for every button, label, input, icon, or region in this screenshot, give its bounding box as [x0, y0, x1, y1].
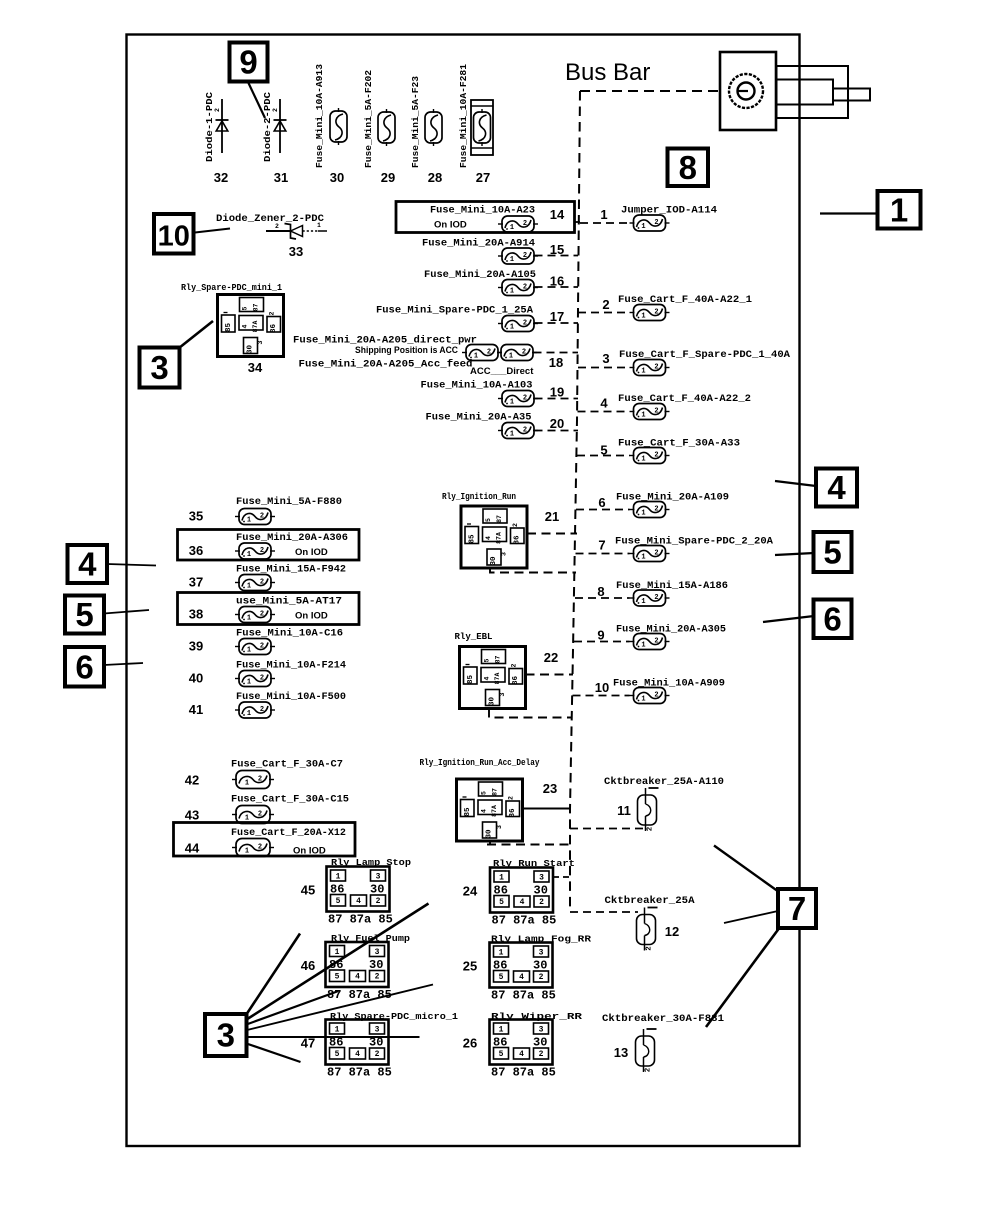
leader line callout 4 (left): [107, 564, 156, 566]
svg-text:42: 42: [185, 773, 199, 788]
leader line callout 6 (left): [104, 663, 143, 665]
svg-text:7: 7: [598, 538, 605, 553]
fuse 8 Fuse_Mini_15A-A186: [597, 580, 728, 606]
svg-text:34: 34: [248, 360, 263, 375]
svg-text:20: 20: [550, 416, 564, 431]
fuse 16 Fuse_Mini_20A-A105: [424, 269, 564, 296]
svg-text:39: 39: [189, 639, 203, 654]
fuse 35 Fuse_Mini_5A-F880: [189, 496, 342, 525]
wire fuse 8 from bus: [575, 597, 630, 599]
svg-text:7: 7: [788, 890, 806, 927]
svg-text:Fuse_Mini_5A-F880: Fuse_Mini_5A-F880: [236, 496, 342, 508]
svg-text:10: 10: [158, 220, 190, 252]
leader lines callout 7: [714, 846, 779, 893]
svg-text:46: 46: [301, 958, 315, 973]
callout 3: [140, 348, 180, 388]
callout 1: [878, 191, 921, 229]
svg-text:Fuse_Mini_5A-F23: Fuse_Mini_5A-F23: [410, 76, 421, 168]
svg-text:5: 5: [823, 534, 841, 571]
svg-text:9: 9: [597, 628, 604, 643]
svg-text:Bus Bar: Bus Bar: [565, 59, 650, 86]
svg-text:28: 28: [428, 170, 442, 185]
fuse 9 Fuse_Mini_20A-A305: [597, 624, 726, 650]
wire relay 23 pin30 to bus: [487, 841, 570, 845]
fuse 3 Fuse_Cart_F_Spare-PDC_1_40A: [602, 349, 790, 376]
frame: main diagram border: [127, 35, 800, 1147]
fuse 5 Fuse_Cart_F_30A-A33: [600, 438, 740, 464]
svg-text:27: 27: [476, 170, 490, 185]
svg-text:Diode-2-PDC: Diode-2-PDC: [262, 92, 273, 162]
relay 46 Rly_Fuel_Pump: [301, 933, 411, 1002]
fuse 39 Fuse_Mini_10A-C16: [189, 628, 343, 655]
svg-text:Fuse_Mini_15A-A186: Fuse_Mini_15A-A186: [616, 580, 728, 592]
svg-text:On IOD: On IOD: [295, 547, 328, 558]
relay 47 Rly_Spare-PDC_micro_1: [301, 1011, 459, 1080]
fuse 28 Fuse_Mini_5A-F23: [410, 76, 442, 185]
svg-text:45: 45: [301, 883, 315, 898]
fuse 2 Fuse_Cart_F_40A-A22_1: [602, 294, 752, 321]
svg-text:41: 41: [189, 702, 203, 717]
relay 24 Rly_Run_Start: [463, 858, 575, 928]
wire fuse 1 from bus: [580, 222, 630, 224]
svg-text:On IOD: On IOD: [295, 611, 328, 622]
svg-text:Fuse_Mini_20A-A205_Acc_feed: Fuse_Mini_20A-A205_Acc_feed: [299, 359, 473, 371]
svg-text:Cktbreaker_25A-A110: Cktbreaker_25A-A110: [604, 776, 724, 788]
wire row14 to bus: [575, 221, 581, 223]
svg-text:14: 14: [550, 207, 565, 222]
fuse 42 Fuse_Cart_F_30A-C7: [185, 759, 343, 789]
fuse 44 Fuse_Cart_F_20A-X12: [185, 827, 346, 857]
relay 22 Rly_EBL: [455, 631, 559, 709]
svg-text:23: 23: [543, 781, 557, 796]
svg-text:1: 1: [317, 222, 321, 229]
wire relay 21 pin86 to bus: [527, 533, 577, 535]
svg-text:4: 4: [600, 396, 608, 411]
callout 4: [816, 469, 857, 507]
wire relay 22 pin86 to bus: [526, 674, 574, 676]
breaker 13 Cktbreaker_30A-F881: [602, 1013, 724, 1072]
diode D33 Diode_Zener_2-PDC: [216, 213, 327, 259]
svg-text:1: 1: [890, 191, 908, 228]
fuse 36 Fuse_Mini_20A-A306: [189, 532, 348, 559]
svg-text:Rly_Ignition_Run_Acc_Delay: Rly_Ignition_Run_Acc_Delay: [420, 757, 540, 768]
diode 31 Diode-2-PDC: [262, 92, 288, 185]
svg-text:47: 47: [301, 1036, 315, 1051]
svg-text:6: 6: [823, 600, 841, 637]
svg-text:25: 25: [463, 959, 477, 974]
fuse 7 Fuse_Mini_Spare-PDC_2_20A: [598, 536, 773, 562]
relay 45 Rly_Lamp_Stop: [301, 857, 412, 927]
svg-text:36: 36: [189, 543, 203, 558]
wire fuse 6 from bus: [576, 509, 630, 511]
svg-text:8: 8: [679, 149, 697, 186]
svg-text:9: 9: [239, 44, 257, 81]
svg-text:2: 2: [214, 108, 221, 112]
callout 6: [65, 647, 104, 687]
wire relay 21 pin30 to bus: [490, 568, 576, 573]
wire fuse 19 to bus: [535, 398, 579, 400]
relay 23 Rly_Ignition_Run_Acc_Delay: [420, 757, 558, 841]
svg-text:29: 29: [381, 170, 395, 185]
svg-text:11: 11: [617, 803, 631, 818]
callout 7: [778, 889, 816, 928]
fuse 14 Fuse_Mini_10A-A23: [430, 205, 565, 233]
fuse 15 Fuse_Mini_20A-A914: [422, 238, 564, 265]
svg-text:2: 2: [602, 297, 609, 312]
wire relay 24 pin3 to bus: [553, 876, 569, 878]
svg-text:Fuse_Mini_5A-F202: Fuse_Mini_5A-F202: [363, 70, 374, 168]
svg-text:Fuse_Mini_20A-A109: Fuse_Mini_20A-A109: [616, 492, 729, 504]
svg-text:Rly_EBL: Rly_EBL: [455, 631, 493, 642]
fuse 20 Fuse_Mini_20A-A35: [426, 412, 565, 439]
relay 34 Rly_Spare-PDC_mini_1: [181, 282, 284, 375]
svg-text:32: 32: [214, 170, 228, 185]
svg-text:35: 35: [189, 509, 203, 524]
svg-text:Jumper_IOD-A114: Jumper_IOD-A114: [621, 205, 717, 217]
wire fuse 15 to bus: [535, 255, 579, 257]
wire bus top dashed to stud: [580, 90, 720, 92]
svg-text:30: 30: [330, 170, 344, 185]
callout 9: [230, 43, 268, 82]
svg-text:4: 4: [827, 469, 846, 506]
svg-text:4: 4: [78, 546, 97, 583]
relay 21 Rly_Ignition_Run: [442, 491, 559, 568]
bus bar stud bolt symbol: [720, 52, 870, 130]
callout 6: [814, 600, 852, 639]
box row 44 (On IOD): [174, 823, 356, 857]
callout 4: [68, 545, 108, 583]
svg-text:8: 8: [597, 584, 604, 599]
box row 14 (On IOD): [396, 202, 575, 233]
svg-text:6: 6: [598, 495, 605, 510]
relay 26 Rly_Wiper_RR: [463, 1011, 583, 1080]
wire bus to breaker 11: [570, 828, 643, 830]
callout 5: [65, 596, 104, 634]
svg-text:2: 2: [275, 223, 279, 230]
box row 36 (On IOD): [178, 530, 360, 561]
leader line callout 5 (left): [104, 610, 149, 614]
svg-text:10: 10: [595, 680, 609, 695]
svg-text:33: 33: [289, 244, 303, 259]
leader line callout 4 (right): [775, 481, 816, 486]
wire main vertical bus (dashed): [570, 91, 580, 912]
fuse 27 Fuse_Mini_10A-F281 (with holder): [458, 64, 493, 185]
svg-text:Fuse_Mini_10A-A909: Fuse_Mini_10A-A909: [613, 678, 725, 690]
fuse 4 Fuse_Cart_F_40A-A22_2: [600, 393, 751, 420]
svg-text:19: 19: [550, 385, 564, 400]
wire fuse 20 to bus: [535, 430, 579, 432]
svg-text:On IOD: On IOD: [434, 220, 467, 231]
svg-text:2: 2: [272, 108, 279, 112]
svg-text:Fuse_Mini_10A-A913: Fuse_Mini_10A-A913: [314, 64, 325, 168]
fuse 19 Fuse_Mini_10A-A103: [421, 380, 565, 407]
svg-text:12: 12: [665, 924, 679, 939]
fuse 40 Fuse_Mini_10A-F214: [189, 660, 346, 687]
svg-text:38: 38: [189, 607, 203, 622]
svg-text:3: 3: [150, 349, 168, 386]
svg-text:Cktbreaker_25A: Cktbreaker_25A: [605, 895, 696, 907]
leader line callout 3 (top) to relay 34: [179, 321, 213, 348]
wire fuse 4 from bus: [578, 411, 630, 413]
svg-text:Diode-1-PDC: Diode-1-PDC: [204, 92, 215, 162]
svg-text:44: 44: [185, 841, 200, 856]
diode 32 Diode-1-PDC: [204, 92, 229, 185]
svg-text:37: 37: [189, 575, 203, 590]
leader line callout 10: [195, 229, 230, 233]
fuse 29 Fuse_Mini_5A-F202: [363, 70, 395, 185]
fuse 43 Fuse_Cart_F_30A-C15: [185, 794, 349, 824]
svg-text:Fuse_Mini_20A-A305: Fuse_Mini_20A-A305: [616, 624, 726, 636]
callout 5: [814, 532, 852, 572]
svg-text:18: 18: [549, 355, 563, 370]
svg-text:6: 6: [75, 648, 93, 685]
svg-text:Rly_Spare-PDC_mini_1: Rly_Spare-PDC_mini_1: [181, 282, 282, 293]
svg-text:5: 5: [75, 596, 93, 633]
callout 3: [205, 1014, 247, 1056]
wire fuse 9 from bus: [574, 641, 630, 643]
svg-text:Cktbreaker_30A-F881: Cktbreaker_30A-F881: [602, 1013, 724, 1025]
fuse 30 Fuse_Mini_10A-A913: [314, 64, 347, 185]
svg-text:Fuse_Mini_10A-A23: Fuse_Mini_10A-A23: [430, 205, 535, 217]
relay 25 Rly_Lamp_Fog_RR: [463, 934, 592, 1003]
wire fuse 18 to bus: [534, 352, 579, 354]
wire bus to breaker 12: [570, 911, 638, 913]
wire fuse 16 to bus: [535, 286, 579, 288]
fuse 41 Fuse_Mini_10A-F500: [189, 691, 346, 718]
svg-text:22: 22: [544, 650, 558, 665]
svg-text:Shipping Position is ACC: Shipping Position is ACC: [355, 345, 458, 356]
leader line callout 9 to diode 31: [248, 82, 265, 118]
wire fuse 10 from bus: [573, 695, 630, 697]
svg-text:3: 3: [217, 1017, 235, 1054]
svg-text:Fuse_Cart_F_20A-X12: Fuse_Cart_F_20A-X12: [231, 827, 346, 839]
svg-text:21: 21: [545, 509, 559, 524]
wire fuse 2 from bus: [578, 312, 630, 314]
svg-text:ACC___Direct: ACC___Direct: [470, 366, 534, 377]
wire relay 23 pin86 to bus: [523, 808, 571, 810]
svg-text:3: 3: [602, 351, 609, 366]
breaker 12 Cktbreaker_25A: [605, 895, 696, 951]
svg-text:Fuse_Mini_10A-F281: Fuse_Mini_10A-F281: [458, 64, 469, 168]
fuse 6 Fuse_Mini_20A-A109: [598, 492, 729, 518]
svg-text:Fuse_Cart_F_30A-C7: Fuse_Cart_F_30A-C7: [231, 759, 343, 771]
callout 10: [154, 214, 194, 254]
fuse 18 Fuse_Mini_20A-A205 pair: [293, 335, 563, 378]
breaker 11 Cktbreaker_25A-A110: [604, 776, 724, 831]
svg-text:Fuse_Cart_F_30A-C15: Fuse_Cart_F_30A-C15: [231, 794, 349, 806]
svg-text:43: 43: [185, 808, 199, 823]
wire relay 22 pin30 to bus: [489, 709, 572, 718]
fuse 37 Fuse_Mini_15A-F942: [189, 564, 346, 591]
wire fuse 5 from bus: [577, 455, 630, 457]
svg-text:24: 24: [463, 884, 478, 899]
svg-text:17: 17: [550, 309, 564, 324]
callout 8: [668, 149, 709, 187]
svg-text:Diode_Zener_2-PDC: Diode_Zener_2-PDC: [216, 213, 325, 225]
svg-text:31: 31: [274, 170, 288, 185]
wire fuse 17 to bus: [535, 322, 579, 324]
svg-text:13: 13: [614, 1045, 628, 1060]
leader lines callout 3 (bottom) fan: [245, 934, 300, 1017]
leader line callout 1: [820, 212, 878, 214]
leader line callout 6 (right): [763, 616, 814, 622]
svg-text:26: 26: [463, 1036, 477, 1051]
box row 38 (On IOD): [178, 593, 360, 625]
leader line callout 5 (right): [775, 553, 814, 555]
svg-text:Rly_Ignition_Run: Rly_Ignition_Run: [442, 491, 516, 502]
wire fuse 3 from bus: [578, 367, 630, 369]
svg-text:40: 40: [189, 671, 203, 686]
svg-text:1: 1: [600, 207, 607, 222]
fuse 17 Fuse_Mini_Spare-PDC_1_25A: [376, 305, 564, 332]
wire fuse 7 from bus: [576, 553, 630, 555]
svg-text:On IOD: On IOD: [293, 846, 326, 857]
fuse 10 Fuse_Mini_10A-A909: [595, 678, 725, 704]
fuse 38 use_Mini_5A-AT17: [189, 596, 342, 623]
fuse 1 Jumper_IOD-A114: [600, 205, 717, 232]
